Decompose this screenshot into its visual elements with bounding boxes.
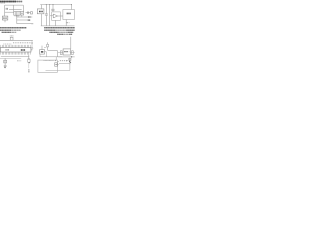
wire [40,14,42,26]
sensor U2 [37,9,44,14]
converter U4 [63,10,75,20]
capacitor C5 [4,64,7,66]
regulator U5 feed [70,37,72,49]
IC U1 bottom pins [0,52,2,55]
capacitor C6 [60,51,62,55]
wire [40,56,62,58]
wire [4,63,6,65]
capacitor C7 [72,51,74,55]
wire faint [28,63,30,68]
transistor Q1 [69,58,71,65]
node B [49,4,50,5]
wire [45,52,47,57]
op-amp U3 box [52,12,61,21]
resistor R1 [28,59,30,62]
relay K1 [14,12,20,16]
wire [13,5,15,11]
caption left line 2 [0,29,21,31]
ground rail bottom [46,69,71,71]
net label [6,8,9,10]
wire end junction [31,42,32,44]
net label [28,19,31,21]
wire stub [21,15,23,17]
wire [49,5,51,26]
wire [0,57,21,59]
wire [40,5,42,9]
indicator LED D1 [31,47,33,49]
wire [65,20,67,26]
connector J1 [31,12,33,14]
wire branch 1 [17,16,28,18]
wire [0,39,33,41]
crystal Y1 [10,37,13,40]
bus wire [16,15,18,24]
net label [28,16,31,18]
wire [45,5,47,14]
wire [45,51,47,53]
wire [26,12,31,14]
IC U1 top pins [0,45,2,48]
capacitor C3 [52,5,54,9]
ground rail [58,56,74,58]
node A [46,4,47,5]
wire [45,15,47,26]
title text [0,1,22,3]
wire top [5,4,24,6]
wire mid [9,9,22,11]
wire [22,5,24,11]
wire left vertical [4,5,6,16]
resistor R2 [47,42,49,44]
wire [71,5,73,10]
value label [10,35,14,37]
ground rail [41,25,75,27]
Vcc wire [40,4,71,6]
node C [71,4,72,5]
LCD module [38,60,57,72]
capacitor C1 [26,12,28,14]
wire [4,58,6,60]
net label [17,60,21,62]
display block [2,16,7,20]
pin label row left [3,43,11,45]
wire [1,55,30,57]
caption left line 1 [0,27,26,29]
wire branch 3 [17,23,32,25]
ground [4,67,6,69]
capacitor C2 [45,13,48,15]
op-amp input wire [50,15,54,17]
wire [55,57,57,60]
net label [32,23,34,25]
op-amp triangle [53,14,57,18]
wire [56,50,58,56]
wire [5,11,14,13]
wire branch 2 [17,19,28,21]
microcontroller U1 [0,48,31,53]
relay pins [14,15,16,16]
caption left line 3 [2,31,17,33]
wire [55,20,57,26]
LCD label [44,60,54,62]
wire stub [4,20,6,22]
pushbutton S2 [28,69,29,72]
caption right line 3 [49,31,73,33]
regulator U5 [63,49,70,55]
subtitle label [0,2,5,4]
value label [44,47,46,49]
contrast pot [55,63,58,66]
wire [28,55,30,60]
wire [39,54,41,57]
driver module [41,46,43,50]
wire [31,49,33,50]
wire out [58,15,63,17]
wire [58,52,63,54]
caption right line 1 [44,27,75,29]
switch S1 [20,12,23,16]
pin label row right [13,42,31,44]
crystal Y2 [4,60,7,63]
wire [70,52,74,54]
signal wire dashed [60,60,67,62]
wire [59,63,70,65]
wire [48,49,58,51]
net label [66,22,70,24]
wire [69,65,71,70]
wire [31,44,33,47]
caption right line 4 [57,33,72,35]
caption right line 2 [44,29,75,31]
